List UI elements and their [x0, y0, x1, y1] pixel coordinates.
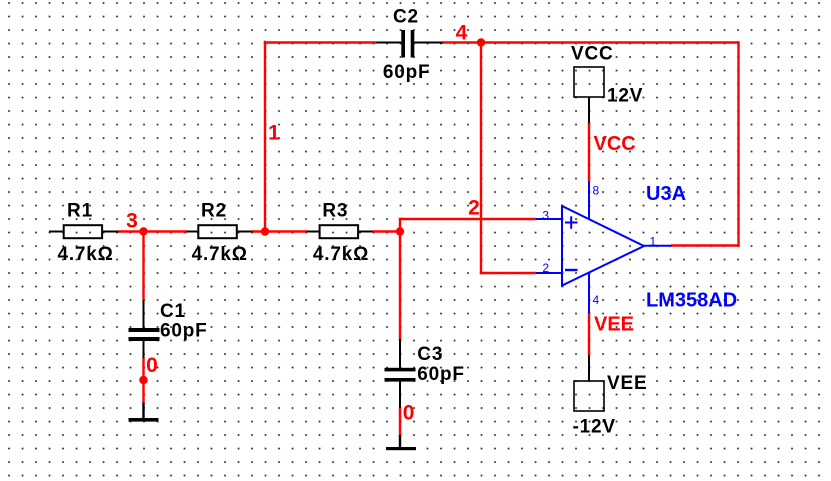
- svg-text:8: 8: [593, 184, 600, 198]
- wire: riser from junction to pin3 row: [399, 218, 401, 233]
- svg-text:4.7kΩ: 4.7kΩ: [192, 244, 248, 265]
- wire: VEE red segment: [588, 312, 590, 355]
- svg-text:VEE: VEE: [607, 373, 647, 394]
- svg-text:0: 0: [403, 401, 415, 424]
- wire: main row node 1 segment (R2 to R3): [252, 230, 307, 232]
- svg-text:4: 4: [456, 22, 468, 45]
- capacitor C1: [129, 300, 160, 358]
- svg-text:LM358AD: LM358AD: [646, 289, 737, 311]
- svg-text:4: 4: [593, 293, 600, 307]
- svg-text:0: 0: [146, 354, 158, 377]
- svg-text:12V: 12V: [607, 86, 643, 107]
- capacitor C3: [385, 339, 416, 408]
- svg-text:3: 3: [542, 208, 549, 222]
- svg-text:60pF: 60pF: [417, 364, 465, 385]
- node 0 junction dot at C1: [139, 376, 147, 384]
- node 4 junction dot: [477, 38, 485, 46]
- svg-text:60pF: 60pF: [383, 62, 431, 83]
- node 2 junction dot: [396, 227, 404, 235]
- svg-text:4.7kΩ: 4.7kΩ: [313, 244, 369, 265]
- wire: VCC red segment: [588, 122, 590, 183]
- wire: node 3 down to C1: [142, 232, 144, 302]
- resistor R1: [49, 225, 119, 238]
- op-amp pin 4 stub: [588, 273, 590, 314]
- svg-text:VCC: VCC: [571, 44, 614, 65]
- svg-text:R3: R3: [322, 201, 348, 222]
- svg-text:1: 1: [650, 235, 657, 249]
- wire: top right horizontal node 4: [442, 41, 739, 43]
- VEE supply box: [574, 355, 604, 411]
- wire: C1 net 0 segment: [142, 357, 144, 404]
- svg-text:VEE: VEE: [594, 314, 634, 336]
- wire: junction down to C3: [399, 232, 401, 341]
- resistor R2: [187, 225, 253, 238]
- svg-text:2: 2: [542, 261, 549, 275]
- wire: node 2 horizontal to pin 3: [399, 218, 536, 220]
- wire: top left horizontal to C2: [264, 41, 376, 43]
- wire: node 2 horizontal to pin 2: [480, 272, 536, 274]
- svg-text:C3: C3: [417, 344, 443, 365]
- svg-text:3: 3: [126, 210, 138, 233]
- wire: node 4 vertical down to pin2 row: [480, 43, 482, 275]
- op-amp U3A: [562, 206, 644, 286]
- ground at C3: [386, 435, 416, 450]
- wire: R3 right to node junction: [372, 230, 401, 232]
- ground at C1: [129, 403, 159, 422]
- svg-text:R2: R2: [201, 201, 227, 222]
- wire: feedback right vertical: [737, 41, 739, 246]
- svg-text:C1: C1: [160, 301, 186, 322]
- op-amp pin 2 stub: [536, 272, 562, 274]
- node 1 junction dot: [261, 227, 269, 235]
- svg-text:1: 1: [268, 122, 280, 145]
- svg-text:R1: R1: [67, 201, 93, 222]
- svg-text:2: 2: [468, 197, 480, 220]
- wire: output to feedback corner: [671, 244, 740, 246]
- wire: main row node 3 segment (R1 to R2): [118, 230, 188, 232]
- svg-text:U3A: U3A: [646, 183, 686, 205]
- capacitor C2: [376, 30, 443, 58]
- svg-text:C2: C2: [393, 7, 419, 28]
- resistor R3: [307, 225, 373, 238]
- op-amp pin 1 output stub: [643, 245, 672, 247]
- op-amp pin 3 stub: [536, 218, 562, 220]
- wire: node 1 vertical riser to C2: [264, 41, 266, 233]
- wire: C3 net 0 segment: [399, 407, 401, 436]
- svg-text:VCC: VCC: [594, 133, 636, 155]
- op-amp pin 8 stub: [588, 182, 590, 220]
- svg-text:-12V: -12V: [573, 417, 616, 438]
- svg-text:60pF: 60pF: [160, 321, 208, 342]
- VCC supply box: [574, 67, 604, 123]
- svg-text:4.7kΩ: 4.7kΩ: [57, 244, 113, 265]
- node 3 junction dot: [139, 227, 147, 235]
